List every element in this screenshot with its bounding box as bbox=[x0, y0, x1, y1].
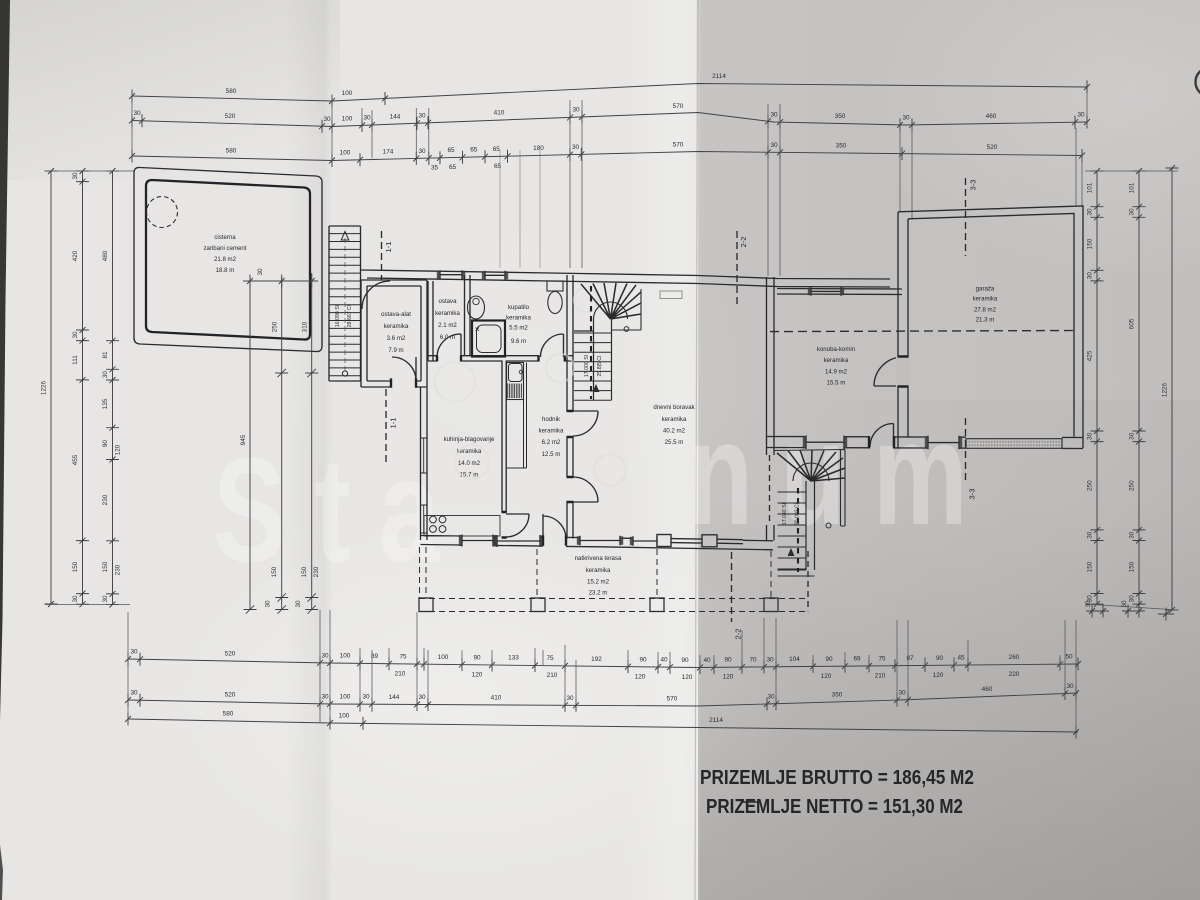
svg-text:30: 30 bbox=[767, 693, 775, 700]
window: bottom wall 1 bbox=[459, 535, 496, 547]
svg-text:6.0 m: 6.0 m bbox=[440, 334, 455, 341]
door: hodnik to dnevni upper bbox=[573, 411, 598, 436]
dimension chain: right outer 1226 bbox=[1166, 165, 1179, 613]
fixture: kitchen sink unit bbox=[506, 363, 526, 469]
svg-text:100: 100 bbox=[342, 115, 353, 122]
room label: ostava bbox=[435, 298, 460, 341]
svg-text:120: 120 bbox=[115, 444, 122, 455]
svg-text:69: 69 bbox=[853, 656, 861, 663]
svg-text:101: 101 bbox=[1129, 182, 1136, 193]
wall: konoba top bbox=[777, 289, 902, 295]
door: konoba to terrace (bottom wall) bbox=[870, 424, 894, 448]
svg-text:410: 410 bbox=[491, 694, 502, 701]
svg-text:30: 30 bbox=[566, 695, 574, 702]
window: konoba bottom bbox=[803, 436, 847, 450]
dimension chain: bottom row A bbox=[125, 653, 1081, 675]
svg-text:30.003 CI: 30.003 CI bbox=[795, 503, 801, 526]
svg-text:460: 460 bbox=[986, 113, 997, 120]
svg-text:23.2 m: 23.2 m bbox=[589, 590, 608, 597]
dimension chain: top row 1 (580/100/2114) bbox=[129, 81, 1090, 108]
svg-text:75: 75 bbox=[878, 655, 886, 662]
glass: bottom wall 2 bbox=[717, 539, 743, 544]
svg-text:45: 45 bbox=[957, 655, 965, 662]
bottom-right corner extra shading bbox=[700, 400, 1200, 900]
svg-text:75: 75 bbox=[546, 655, 554, 662]
section line 3-3 bottom bbox=[965, 418, 967, 482]
svg-text:100: 100 bbox=[340, 150, 351, 157]
terrace posts bbox=[419, 598, 433, 612]
svg-text:250: 250 bbox=[272, 321, 279, 332]
svg-text:Sta: Sta bbox=[213, 427, 468, 593]
svg-text:30: 30 bbox=[418, 694, 426, 701]
svg-text:30: 30 bbox=[1129, 208, 1136, 216]
svg-text:27.8 m2: 27.8 m2 bbox=[974, 307, 997, 314]
svg-text:30: 30 bbox=[1087, 531, 1094, 539]
fireplace (faint) bbox=[660, 291, 682, 299]
wall: garage inner bbox=[908, 214, 1074, 437]
svg-text:konoba-komin: konoba-komin bbox=[817, 346, 855, 353]
svg-text:580: 580 bbox=[226, 88, 237, 95]
cisterna manhole dashed circle bbox=[147, 197, 178, 228]
svg-text:30: 30 bbox=[1121, 600, 1128, 608]
svg-text:120: 120 bbox=[472, 671, 483, 678]
paper background left half bbox=[0, 0, 698, 900]
svg-text:3-3: 3-3 bbox=[969, 180, 978, 191]
svg-text:90: 90 bbox=[825, 656, 833, 663]
dimension chain: right inner bbox=[1091, 168, 1104, 607]
svg-text:100: 100 bbox=[342, 90, 353, 97]
pencil ghosts (faint) bbox=[435, 288, 626, 486]
svg-text:30: 30 bbox=[898, 689, 906, 696]
room label: kuhinja-blagovanje bbox=[444, 436, 495, 479]
svg-text:520: 520 bbox=[225, 113, 236, 120]
wall: ostava-alat annex inner bbox=[367, 286, 421, 381]
svg-text:1-1: 1-1 bbox=[384, 242, 393, 253]
svg-text:28.667 CI: 28.667 CI bbox=[347, 305, 353, 328]
svg-text:570: 570 bbox=[673, 142, 684, 149]
svg-text:90: 90 bbox=[639, 656, 647, 663]
window: garage bottom bbox=[925, 436, 962, 450]
svg-text:150: 150 bbox=[1087, 561, 1094, 572]
top-left corner shading bbox=[0, 0, 340, 180]
svg-text:50: 50 bbox=[1065, 654, 1073, 661]
svg-text:150: 150 bbox=[72, 561, 79, 572]
svg-text:350: 350 bbox=[832, 691, 843, 698]
svg-text:65: 65 bbox=[493, 146, 501, 153]
stair 2 down arrow bbox=[788, 548, 795, 556]
svg-text:30: 30 bbox=[265, 600, 272, 608]
svg-text:30: 30 bbox=[770, 112, 778, 119]
svg-text:520: 520 bbox=[225, 651, 236, 658]
svg-text:455: 455 bbox=[72, 454, 79, 465]
svg-text:zaribani cement: zaribani cement bbox=[203, 245, 246, 252]
svg-text:30: 30 bbox=[902, 115, 910, 122]
svg-text:21.8 m2: 21.8 m2 bbox=[214, 256, 237, 263]
svg-text:keramika: keramika bbox=[435, 310, 460, 317]
svg-text:90: 90 bbox=[724, 657, 732, 664]
svg-text:30: 30 bbox=[1087, 272, 1094, 280]
soft light patch lower-left bbox=[120, 490, 800, 900]
dimension chain: left middle bbox=[76, 168, 89, 607]
svg-text:12.5 m: 12.5 m bbox=[542, 451, 561, 458]
svg-text:PRIZEMLJE BRUTTO = 186,45 M2: PRIZEMLJE BRUTTO = 186,45 M2 bbox=[700, 767, 974, 789]
svg-text:250: 250 bbox=[1129, 480, 1136, 491]
svg-text:30: 30 bbox=[323, 116, 331, 123]
svg-text:480: 480 bbox=[102, 250, 109, 261]
svg-text:30: 30 bbox=[1087, 208, 1094, 216]
stair: hodnik winder bbox=[574, 283, 641, 400]
fixture: WC bbox=[547, 281, 563, 291]
pier: bottom wall 1 bbox=[657, 535, 671, 547]
svg-text:150: 150 bbox=[1129, 561, 1136, 572]
room label: natkrivena terasa bbox=[575, 555, 622, 597]
svg-text:65: 65 bbox=[470, 147, 478, 154]
svg-text:30: 30 bbox=[295, 600, 302, 608]
svg-text:keramika: keramika bbox=[506, 315, 531, 322]
svg-text:40.2 m2: 40.2 m2 bbox=[663, 428, 686, 435]
svg-text:1226: 1226 bbox=[41, 380, 48, 395]
wall: kuhinja/hodnik divider bbox=[502, 361, 506, 513]
svg-text:120: 120 bbox=[682, 674, 693, 681]
svg-text:580: 580 bbox=[223, 711, 234, 718]
svg-text:30: 30 bbox=[572, 144, 580, 151]
svg-text:410: 410 bbox=[494, 110, 505, 117]
right chain connectors bbox=[1085, 171, 1178, 610]
svg-text:15.2 m2: 15.2 m2 bbox=[587, 579, 610, 586]
svg-text:120: 120 bbox=[821, 673, 832, 680]
svg-text:9.6 m: 9.6 m bbox=[511, 338, 526, 345]
svg-text:hodnik: hodnik bbox=[542, 416, 561, 423]
wall: top exterior bbox=[361, 270, 890, 279]
svg-text:keramika: keramika bbox=[384, 323, 409, 330]
room label: konoba-komin bbox=[817, 346, 855, 387]
svg-text:ostava: ostava bbox=[439, 298, 458, 305]
svg-text:30: 30 bbox=[1129, 531, 1136, 539]
svg-text:100: 100 bbox=[340, 694, 351, 701]
garage vehicle door bbox=[966, 439, 1062, 449]
svg-text:350: 350 bbox=[836, 143, 847, 150]
svg-text:2114: 2114 bbox=[712, 73, 726, 80]
svg-text:30: 30 bbox=[572, 107, 580, 114]
svg-text:210: 210 bbox=[875, 672, 886, 679]
door: terrace from hodnik bbox=[543, 514, 566, 539]
svg-text:30: 30 bbox=[362, 694, 370, 701]
pier: bottom wall 2 bbox=[702, 535, 717, 547]
svg-text:70: 70 bbox=[749, 657, 757, 664]
svg-text:570: 570 bbox=[667, 695, 678, 702]
wall: garage outer bbox=[898, 206, 1083, 448]
window in top wall 2 bbox=[482, 271, 508, 280]
wall: konoba+garage bottom bbox=[767, 436, 807, 438]
door: kupatilo bbox=[541, 334, 564, 357]
svg-text:580: 580 bbox=[226, 148, 237, 155]
svg-text:100: 100 bbox=[340, 653, 351, 660]
svg-text:65: 65 bbox=[449, 164, 457, 171]
svg-text:460: 460 bbox=[982, 686, 993, 693]
svg-text:150: 150 bbox=[301, 566, 308, 577]
svg-text:30: 30 bbox=[130, 649, 138, 656]
svg-text:2114: 2114 bbox=[709, 717, 723, 724]
dimension chain: bottom row C (580/100/2114) bbox=[125, 713, 1079, 739]
svg-text:90: 90 bbox=[473, 654, 481, 661]
svg-text:230: 230 bbox=[115, 564, 122, 575]
svg-text:144: 144 bbox=[390, 114, 401, 121]
svg-text:30: 30 bbox=[766, 656, 774, 663]
svg-text:1-1: 1-1 bbox=[389, 418, 398, 429]
door: konoba-garage 1 bbox=[874, 357, 903, 386]
fixture: stove bbox=[424, 516, 500, 537]
svg-text:520: 520 bbox=[225, 692, 236, 699]
svg-text:30: 30 bbox=[418, 148, 426, 155]
svg-text:81: 81 bbox=[102, 351, 109, 359]
wall: ostava left bbox=[428, 281, 433, 361]
svg-text:30: 30 bbox=[321, 652, 329, 659]
svg-text:90: 90 bbox=[681, 657, 689, 664]
punch hole circle at right edge bbox=[1196, 68, 1200, 97]
cisterna outer wall bbox=[134, 167, 322, 351]
entry stairs bbox=[329, 226, 361, 381]
dimension chain: top row 3 bbox=[129, 146, 1085, 167]
fixture: washbasin bbox=[468, 296, 485, 319]
svg-text:keramika: keramika bbox=[586, 567, 611, 574]
small 30 ticks bottom right bbox=[1086, 605, 1174, 621]
svg-text:30: 30 bbox=[770, 142, 778, 149]
svg-text:30: 30 bbox=[72, 172, 79, 180]
svg-text:144: 144 bbox=[389, 694, 400, 701]
svg-text:120: 120 bbox=[933, 672, 944, 679]
svg-text:174: 174 bbox=[383, 149, 394, 156]
stair walk line w/ arrow bbox=[344, 238, 346, 371]
svg-text:30: 30 bbox=[130, 690, 138, 697]
fold crease line bbox=[695, 0, 698, 900]
svg-text:111: 111 bbox=[72, 355, 79, 365]
svg-text:14.0 m2: 14.0 m2 bbox=[458, 460, 481, 467]
svg-text:keramika: keramika bbox=[662, 416, 687, 423]
svg-text:30: 30 bbox=[72, 595, 79, 603]
svg-text:30: 30 bbox=[418, 113, 426, 120]
window: bottom wall 3 bbox=[577, 536, 623, 546]
wall: ostava/kupatilo divider bbox=[465, 275, 471, 356]
svg-text:keramika: keramika bbox=[824, 357, 849, 364]
wall: ostava-alat annex outer bbox=[361, 280, 427, 387]
door: entry bbox=[362, 281, 390, 309]
svg-text:5.5 m2: 5.5 m2 bbox=[509, 325, 528, 332]
svg-text:260: 260 bbox=[1009, 654, 1020, 661]
cisterna inner wall (thick) bbox=[146, 180, 310, 340]
room label: ostava-alat bbox=[381, 311, 411, 354]
room label: kupatilo bbox=[506, 304, 531, 345]
svg-text:570: 570 bbox=[673, 103, 684, 110]
wall: interior horizontal (y356) bbox=[428, 356, 573, 361]
svg-text:ostava-alat: ostava-alat bbox=[381, 311, 411, 318]
window: bottom wall 4 bbox=[630, 536, 660, 546]
section line 3-3 top bbox=[965, 178, 967, 256]
svg-text:30: 30 bbox=[133, 110, 141, 117]
section line 2-2 bottom bbox=[731, 552, 733, 622]
svg-text:18.8 m: 18.8 m bbox=[216, 267, 235, 274]
window in kuhinja left wall bbox=[421, 438, 428, 533]
dimension chain: bottom row B bbox=[125, 687, 1079, 712]
svg-text:101: 101 bbox=[1087, 182, 1094, 193]
svg-text:87: 87 bbox=[906, 655, 914, 662]
window in top wall 1 bbox=[437, 270, 465, 279]
svg-text:30: 30 bbox=[363, 115, 371, 122]
cisterna internal dim lines bbox=[243, 273, 318, 614]
garage roof dashed line bbox=[770, 331, 1074, 332]
svg-text:garaža: garaža bbox=[976, 286, 995, 293]
svg-text:2.1 m2: 2.1 m2 bbox=[438, 322, 457, 329]
svg-text:cisterna: cisterna bbox=[214, 234, 236, 241]
svg-text:25.8|5 CI: 25.8|5 CI bbox=[597, 356, 603, 377]
svg-text:30: 30 bbox=[102, 595, 109, 603]
svg-text:30: 30 bbox=[72, 331, 79, 339]
svg-text:30: 30 bbox=[1085, 600, 1092, 608]
window: bottom wall 2 bbox=[494, 535, 543, 547]
svg-text:150: 150 bbox=[1087, 238, 1094, 249]
svg-text:945: 945 bbox=[240, 434, 247, 445]
light top-right corner bbox=[850, 0, 1200, 280]
svg-text:605: 605 bbox=[1129, 318, 1136, 329]
section line 1-1 top bbox=[381, 231, 383, 280]
svg-text:30: 30 bbox=[321, 693, 329, 700]
svg-text:14.9 m2: 14.9 m2 bbox=[825, 369, 848, 376]
svg-text:17.000 SI: 17.000 SI bbox=[584, 355, 590, 377]
svg-text:40: 40 bbox=[703, 657, 711, 664]
wall: kupatilo right / hodnik-dnevni bbox=[567, 275, 573, 539]
dimension chain: right middle bbox=[1133, 168, 1146, 607]
svg-text:230: 230 bbox=[313, 566, 320, 577]
svg-text:210: 210 bbox=[547, 672, 558, 679]
svg-text:90: 90 bbox=[102, 440, 109, 448]
svg-text:6.2 m2: 6.2 m2 bbox=[542, 439, 561, 446]
svg-text:7.9 m: 7.9 m bbox=[388, 347, 403, 354]
svg-text:num: num bbox=[688, 391, 995, 556]
svg-text:420: 420 bbox=[72, 250, 79, 261]
svg-text:3.6 m2: 3.6 m2 bbox=[387, 335, 406, 342]
svg-text:30: 30 bbox=[1129, 595, 1136, 603]
svg-text:192: 192 bbox=[591, 656, 602, 663]
svg-text:keramika: keramika bbox=[539, 428, 564, 435]
room label: dnevni boravak bbox=[653, 404, 695, 446]
svg-text:30: 30 bbox=[1087, 432, 1094, 440]
paper background right of fold (darker) bbox=[698, 0, 1200, 900]
svg-text:40: 40 bbox=[660, 657, 668, 664]
svg-text:150: 150 bbox=[271, 566, 278, 577]
svg-text:100: 100 bbox=[438, 654, 449, 661]
dimension chain: left inner bbox=[106, 168, 119, 608]
svg-text:21.3 m: 21.3 m bbox=[976, 317, 995, 324]
svg-text:133: 133 bbox=[508, 655, 519, 662]
svg-text:1226: 1226 bbox=[1162, 382, 1169, 397]
svg-text:30: 30 bbox=[1066, 683, 1074, 690]
svg-text:17.040 SI: 17.040 SI bbox=[782, 503, 788, 525]
svg-text:100: 100 bbox=[339, 713, 350, 720]
svg-text:15.5 m: 15.5 m bbox=[827, 380, 846, 387]
svg-text:90: 90 bbox=[936, 655, 944, 662]
svg-text:16.090 SI: 16.090 SI bbox=[335, 305, 341, 327]
svg-text:250: 250 bbox=[1087, 480, 1094, 491]
svg-text:3-3: 3-3 bbox=[968, 489, 977, 500]
svg-text:150: 150 bbox=[102, 561, 109, 572]
svg-text:104: 104 bbox=[789, 656, 800, 663]
svg-text:natkrivena terasa: natkrivena terasa bbox=[575, 555, 622, 562]
stair: konoba winder bbox=[774, 450, 845, 577]
svg-text:210: 210 bbox=[395, 670, 406, 677]
wall: dnevni-konoba divider bbox=[767, 277, 775, 541]
door jambs bbox=[391, 355, 909, 546]
door: hodnik to kuhinja bbox=[506, 514, 529, 537]
room label: cisterna bbox=[203, 234, 246, 274]
svg-text:120: 120 bbox=[635, 673, 646, 680]
door: ostava bbox=[437, 334, 461, 358]
svg-text:220: 220 bbox=[1009, 671, 1020, 678]
svg-text:30: 30 bbox=[257, 268, 264, 276]
svg-text:425: 425 bbox=[1087, 350, 1094, 361]
bright band left of fold bbox=[622, 0, 698, 900]
left chain connectors bbox=[45, 171, 134, 605]
glass: bottom wall bbox=[671, 539, 702, 544]
room label: garaza bbox=[973, 286, 998, 324]
svg-text:30: 30 bbox=[102, 371, 109, 379]
svg-text:135: 135 bbox=[102, 398, 109, 409]
dimension chain: left outer 1226 bbox=[45, 168, 58, 607]
svg-text:2-2: 2-2 bbox=[739, 237, 748, 248]
svg-text:520: 520 bbox=[987, 144, 998, 151]
svg-text:75: 75 bbox=[399, 653, 407, 660]
door: hodnik to dnevni lower bbox=[573, 477, 598, 502]
extension lines top bbox=[132, 90, 1087, 276]
door: ostava-alat bbox=[392, 357, 416, 381]
svg-text:keramika: keramika bbox=[973, 296, 998, 303]
svg-text:25.5 m: 25.5 m bbox=[665, 439, 684, 446]
svg-text:350: 350 bbox=[835, 113, 846, 120]
dark page edge top-left bbox=[0, 0, 10, 720]
svg-text:2-2: 2-2 bbox=[734, 629, 743, 640]
svg-text:120: 120 bbox=[723, 674, 734, 681]
extension lines bottom bbox=[128, 610, 1076, 732]
svg-text:30: 30 bbox=[1077, 112, 1085, 119]
svg-text:65: 65 bbox=[447, 147, 455, 154]
svg-text:35: 35 bbox=[431, 165, 439, 172]
svg-text:310: 310 bbox=[302, 321, 309, 332]
svg-text:kuhinja-blagovanje: kuhinja-blagovanje bbox=[444, 436, 495, 443]
dimension chain: top row 2 bbox=[129, 110, 1090, 133]
section line 1-1 bottom bbox=[385, 389, 387, 462]
room label: hodnik bbox=[539, 416, 564, 458]
wall: bottom exterior bbox=[421, 535, 463, 538]
svg-text:30: 30 bbox=[1129, 432, 1136, 440]
svg-text:180: 180 bbox=[533, 145, 544, 152]
svg-text:230: 230 bbox=[102, 494, 109, 505]
svg-text:kupatilo: kupatilo bbox=[508, 304, 530, 311]
section line 2-2 top bbox=[736, 231, 738, 305]
wall: kuhinja left exterior bbox=[421, 387, 428, 540]
fixture: shower tray bbox=[472, 321, 505, 357]
svg-text:PRIZEMLJE NETTO = 151,30 M2: PRIZEMLJE NETTO = 151,30 M2 bbox=[706, 796, 963, 818]
window in konoba top wall bbox=[808, 287, 844, 296]
svg-text:dnevni boravak: dnevni boravak bbox=[653, 404, 695, 411]
left crease band bbox=[285, 0, 333, 900]
terrace dashed outline bbox=[419, 547, 808, 612]
